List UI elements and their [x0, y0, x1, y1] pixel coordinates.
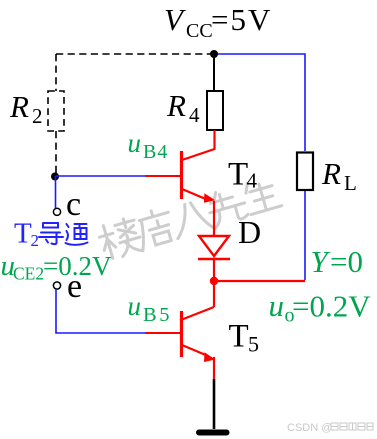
arrow of T5 emitter [204, 352, 215, 362]
svg-text:L: L [344, 171, 357, 195]
label T2 conducting (Chinese) [14, 218, 39, 251]
terminal c [53, 208, 60, 215]
svg-text:T: T [228, 157, 248, 193]
label uo=0.2V [269, 288, 372, 327]
node: Vcc junction [210, 50, 218, 58]
svg-text:=0.2V: =0.2V [292, 289, 371, 324]
svg-text:u: u [269, 288, 285, 323]
svg-text:4: 4 [247, 169, 258, 193]
svg-text:T: T [14, 218, 32, 250]
svg-text:=0: =0 [330, 244, 363, 279]
svg-text:u: u [128, 128, 142, 158]
arrow of T4 emitter [204, 193, 215, 203]
node: output junction [210, 277, 218, 285]
wire: dashed from rail to R2 [55, 54, 57, 91]
wire: output node to RL (red) [214, 280, 305, 282]
wire: dashed from R2 to node [55, 131, 57, 173]
svg-text:2: 2 [32, 104, 43, 128]
svg-text:e: e [67, 268, 82, 305]
svg-text:c: c [66, 186, 81, 223]
wire: T5 emitter red segment [213, 357, 215, 379]
wire: blue base wire T4 [56, 175, 146, 177]
Vcc label V_CC=5V [164, 2, 272, 42]
transistor T5 [182, 281, 215, 357]
svg-text:T: T [229, 319, 249, 355]
wire: diode to output node [213, 259, 215, 281]
label RL [321, 156, 357, 195]
svg-text:R: R [321, 156, 341, 191]
resistor RL [297, 153, 313, 191]
node: left junction [51, 173, 59, 181]
label T4 [228, 157, 258, 193]
svg-text:=5V: =5V [211, 2, 272, 37]
wire: blue down to c terminal [55, 176, 57, 208]
wire: to ground (black) [213, 379, 216, 429]
caption CSDN watermark [287, 422, 332, 434]
svg-text:V: V [164, 2, 186, 37]
svg-text:B4: B4 [143, 141, 168, 163]
svg-text:u: u [128, 291, 142, 321]
wire: Vcc to R4 [213, 54, 215, 91]
terminal e [53, 282, 60, 289]
svg-text:2: 2 [31, 231, 40, 250]
svg-text:CC: CC [186, 20, 213, 42]
label uB4 [128, 128, 169, 163]
svg-text:Y: Y [311, 244, 331, 279]
glyph tong [66, 224, 88, 245]
label Y=0 [311, 244, 363, 279]
wire: red base wire T4 [145, 175, 180, 177]
resistor R4 [207, 91, 223, 130]
wire: top rail blue (Vcc node to right) [214, 54, 305, 151]
wire: top rail dashed (R2 to Vcc node) [56, 53, 214, 55]
glyph dao [39, 223, 63, 244]
label uB5 [128, 291, 173, 326]
label T5 [229, 319, 260, 357]
wire: T4 emitter to diode [213, 201, 215, 236]
label R4 [166, 88, 200, 127]
label uCE2=0.2V [1, 250, 112, 284]
svg-text:B5: B5 [143, 304, 172, 326]
svg-text:CSDN @: CSDN @ [287, 422, 332, 434]
wire: right vertical below RL [304, 190, 306, 280]
transistor T4 [182, 130, 215, 200]
svg-text:R: R [166, 88, 186, 123]
svg-text:4: 4 [189, 103, 200, 127]
svg-text:5: 5 [248, 332, 259, 357]
wire: red base wire T5 [145, 332, 180, 334]
svg-text:R: R [9, 89, 29, 124]
svg-text:D: D [238, 214, 261, 250]
label R2 [9, 89, 43, 128]
svg-text:CE2: CE2 [13, 264, 44, 284]
watermark [96, 176, 283, 261]
resistor R2 (dashed body) [48, 91, 64, 131]
wire: e terminal down and to T5 base (blue) [56, 289, 145, 333]
ground [199, 430, 227, 436]
diode D [198, 236, 230, 259]
